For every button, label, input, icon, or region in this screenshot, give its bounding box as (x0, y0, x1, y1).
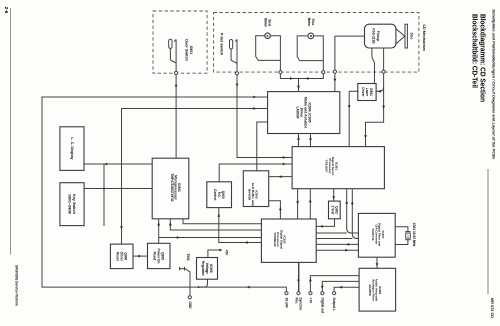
svg-text:TC9462AF: TC9462AF (273, 232, 277, 247)
dashed enclosure: CD mechanism (214, 13, 419, 73)
svg-text:2 Vref: 2 Vref (330, 206, 334, 216)
Q905 power on reset (148, 243, 171, 268)
IC901 microprocessor (152, 158, 189, 219)
svg-text:CD Mechanism: CD Mechanism (422, 24, 426, 51)
wire key switches to IC901 (84, 188, 152, 190)
wire IC901 to IC302 bus 1 (183, 219, 261, 224)
switch S901 (169, 39, 178, 74)
svg-text:Schaltpläne und Plattenabbildu: Schaltpläne und Plattenabbildungen / Cir… (491, 9, 495, 159)
wire IC901 to Q905 and IC302 bus 3 (157, 219, 261, 244)
connector Output L (332, 286, 359, 311)
wire pickup RF to IC301 (364, 48, 385, 147)
wire IC901 to IC302 bus 2 (169, 219, 262, 230)
svg-text:Motor: Motor (307, 18, 311, 28)
sled motor wires (256, 36, 282, 74)
svg-text:BA4558: BA4558 (248, 189, 252, 201)
svg-text:GND: GND (188, 302, 192, 310)
wire IC904 to IC903 (257, 122, 268, 171)
IC903 SLD buffer amp (243, 171, 268, 207)
disc motor wires (297, 36, 325, 74)
svg-text:L. C. Display: L. C. Display (70, 137, 74, 160)
IC307 digital filter DA converter (358, 213, 395, 257)
svg-text:+5V: +5V (225, 250, 229, 257)
svg-text:Driver: Driver (361, 87, 365, 97)
connector Digital out (320, 281, 359, 314)
label Sled Motor (264, 18, 272, 28)
connector GND (188, 296, 192, 310)
wire IC901 to display (84, 163, 152, 166)
wire IC904 to pickup actuator (333, 36, 364, 92)
svg-text:Reset: Reset (116, 252, 120, 262)
svg-text:Blockschaltbild: CD-Teil: Blockschaltbild: CD-Teil (471, 14, 480, 88)
wire Q903 to bus 4 (217, 208, 261, 244)
IC301 signal servo processor (292, 147, 384, 189)
svg-text:T901: T901 (186, 253, 190, 260)
svg-text:S901: S901 (189, 46, 193, 55)
wire IC307 to IC308 (376, 257, 379, 268)
svg-text:MR 672 CD: MR 672 CD (490, 298, 495, 318)
IC909 voltage regulator (197, 258, 218, 280)
svg-text:Disc: Disc (409, 33, 413, 40)
wire IC301 to IC302 a (296, 189, 299, 219)
wire IC301 to laser driver (348, 91, 358, 146)
svg-text:Motor: Motor (264, 18, 268, 28)
svg-text:KSS-213B: KSS-213B (372, 28, 376, 44)
disc motor M (308, 33, 314, 39)
wire IC302 to IC301 b (309, 189, 312, 219)
D891 laser driver (358, 84, 376, 101)
wire IC301 to Q302 (332, 189, 335, 201)
sled motor M (265, 33, 271, 39)
svg-text:TA9181F: TA9181F (324, 160, 328, 173)
wire P-Set switch to IC301 (236, 75, 293, 159)
crystal X301 (395, 227, 410, 245)
wire IC909 +5V output (208, 249, 223, 258)
label Disc Motor (307, 18, 315, 28)
test point T901 (179, 267, 190, 296)
wires IC301 to IC904 (297, 134, 312, 147)
wire IC301 to IC903 (269, 175, 292, 178)
connector +7V (309, 276, 360, 305)
Q302 Vref (329, 201, 341, 219)
svg-text:X301 16.93 MHz: X301 16.93 MHz (412, 223, 416, 247)
svg-text:10-14V: 10-14V (285, 298, 289, 309)
key switches (60, 183, 84, 226)
wire IC909 to rail (199, 279, 208, 287)
right margin rule (487, 169, 489, 294)
svg-text:GRUNDIG Service-Technik: GRUNDIG Service-Technik (15, 265, 20, 307)
svg-text:2-6: 2-6 (4, 7, 9, 14)
pickup KSS-213B (365, 24, 396, 48)
svg-text:Output L: Output L (332, 298, 336, 311)
svg-text:LA6534: LA6534 (296, 106, 300, 118)
svg-text:TC9271F: TC9271F (371, 228, 375, 241)
wires IC302 to IC307 (316, 233, 358, 252)
svg-text:Digital out: Digital out (320, 298, 324, 315)
wire motor drive from IC904 (280, 74, 323, 92)
IC904 IC905 motor and actuator driver (268, 92, 340, 134)
svg-text:+7V: +7V (309, 298, 313, 305)
svg-text:Rec.: Rec. (295, 298, 299, 305)
svg-text:Control: Control (213, 189, 217, 200)
svg-text:Door Switch: Door Switch (185, 39, 189, 61)
connector Synchro Rec (295, 262, 303, 310)
laser beam triangle (396, 29, 405, 44)
svg-text:BA4558: BA4558 (368, 284, 372, 295)
left margin rule (10, 8, 12, 255)
Q906 driver reset (110, 244, 133, 269)
wire Q905 to Q906 (133, 255, 148, 258)
wire IC307 to IC301 d (351, 189, 359, 239)
disc bar (405, 24, 407, 48)
svg-text:Reset: Reset (153, 252, 157, 262)
dashed enclosure: door switch (153, 11, 207, 73)
power rail 10-14V (42, 96, 288, 295)
switch P-Set (230, 39, 239, 75)
wire IC903 to IC302 (269, 201, 282, 219)
wire Q903 to IC301 (219, 163, 292, 182)
svg-text:S801~S808: S801~S808 (68, 194, 72, 213)
wire door switch to IC901 (175, 75, 178, 159)
Q903 P.G. control (207, 182, 232, 208)
wire IC904 to Q906 (120, 107, 268, 244)
IC302 digital signal processor (261, 219, 316, 262)
label S901 Door Switch (185, 39, 194, 61)
L.C. display (60, 127, 84, 171)
svg-text:TMP47C8837AF31: TMP47C8837AF31 (170, 173, 174, 202)
wire IC307 to IC301 c (345, 189, 358, 233)
wire RF monitor to laser driver (376, 87, 383, 92)
svg-text:P-Set Switch: P-Set Switch (220, 33, 224, 56)
wire pickup to laser driver (372, 48, 375, 84)
svg-text:Regulator: Regulator (201, 261, 205, 277)
wire IC302 to synchro connector (298, 262, 300, 291)
IC308 audio amp (359, 268, 396, 311)
svg-text:Key Switch: Key Switch (72, 194, 76, 214)
wire vertical bus left (103, 164, 105, 226)
wire Q302 to IC302 (316, 219, 334, 228)
